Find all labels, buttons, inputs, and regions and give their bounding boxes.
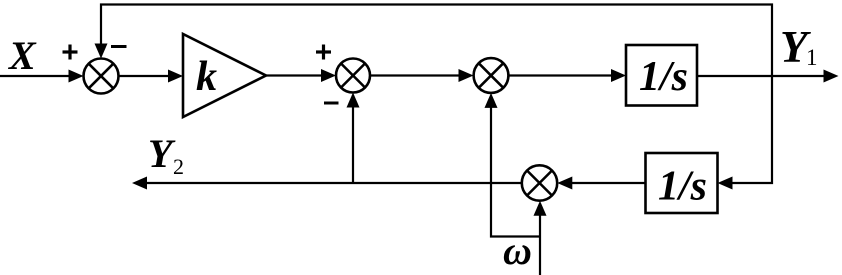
svg-text:1/s: 1/s bbox=[639, 54, 688, 100]
svg-text:2: 2 bbox=[173, 154, 184, 179]
wire: omega input from bottom into M2 bbox=[534, 201, 547, 275]
wire: 1/s to output Y1 bbox=[697, 70, 839, 83]
node Y1 label bbox=[780, 22, 818, 72]
summing junction S1 bbox=[84, 59, 119, 94]
wire: S2 to multiplier M1 bbox=[370, 69, 474, 82]
wire: bottom 1/s to multiplier M2 bbox=[557, 177, 645, 190]
multiplier M1 bbox=[474, 58, 509, 93]
svg-text:X: X bbox=[7, 33, 37, 78]
wire: M1 to top integrator 1/s bbox=[508, 69, 626, 82]
plus sign at S1 input bbox=[63, 45, 78, 60]
wire: omega branch up into M1 bbox=[485, 93, 541, 237]
summing junction S2 bbox=[336, 59, 370, 93]
wire: S1 to amplifier k bbox=[119, 70, 184, 83]
wire: M2 output left to Y2 bbox=[132, 177, 522, 190]
multiplier M2 bbox=[522, 165, 557, 200]
minus sign at S1 feedback input bbox=[111, 45, 127, 48]
wire: Y1 branch down to bottom integrator bbox=[718, 76, 773, 190]
node Y2 label bbox=[148, 131, 184, 179]
wire: X input into summer S1 bbox=[0, 70, 84, 83]
integrator block U2 (1/s bottom) bbox=[646, 153, 718, 213]
wire: Y2 line branch up into S2 (minus input) bbox=[347, 93, 360, 184]
svg-text:ω: ω bbox=[503, 228, 532, 273]
svg-text:Y: Y bbox=[148, 131, 176, 176]
svg-text:k: k bbox=[196, 54, 217, 100]
wire: top feedback from Y1 branch down into S1 bbox=[95, 5, 773, 77]
amplifier k (triangle) bbox=[183, 34, 266, 117]
wire: k output to summer S2 bbox=[266, 69, 336, 82]
svg-text:1: 1 bbox=[806, 45, 818, 70]
minus sign at S2 lower input bbox=[324, 102, 339, 105]
integrator block U1 (1/s top) bbox=[626, 45, 697, 106]
plus sign at S2 input bbox=[316, 45, 331, 60]
svg-text:1/s: 1/s bbox=[658, 164, 707, 210]
